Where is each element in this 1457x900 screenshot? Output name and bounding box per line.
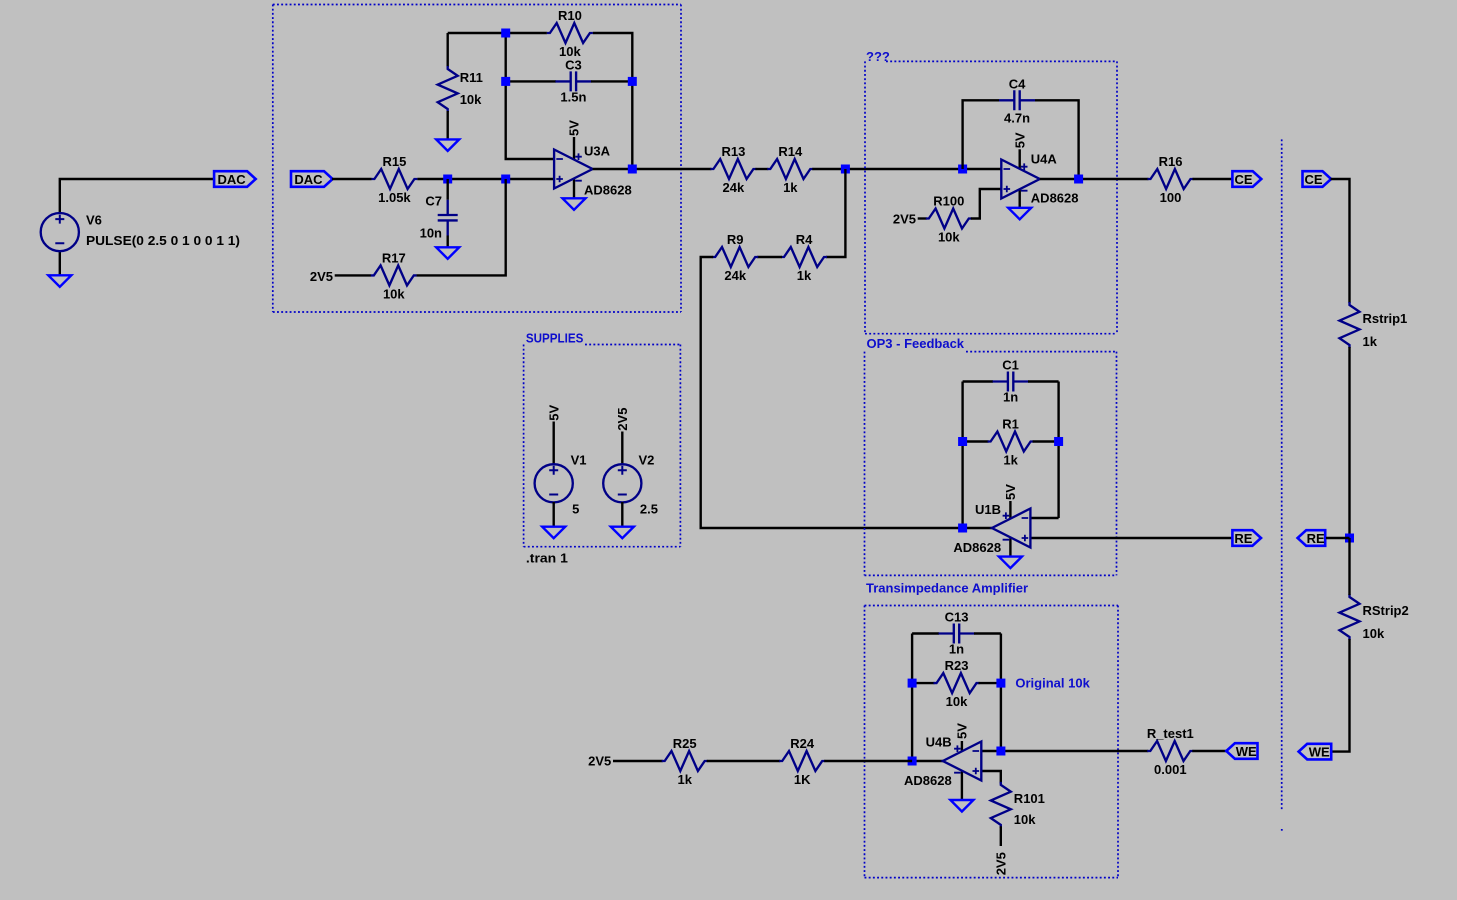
node junction U4A output [1074,175,1083,184]
svg-text:SUPPLIES: SUPPLIES [526,331,584,346]
svg-text:R10: R10 [558,8,582,23]
wire U3A output [593,168,712,170]
voltage source V6 [41,213,79,251]
wire U1B V- pin to ground [1009,538,1011,556]
wire RStrip2 to WE flag [1332,639,1350,752]
wire V6 output to DAC flag [60,179,214,213]
svg-text:10k: 10k [1014,812,1036,827]
svg-text:2V5: 2V5 [994,852,1009,875]
wire R15 to U3A + input [417,178,554,180]
wire U3A V+ pin [573,137,575,160]
svg-text:PULSE(0 2.5 0 1 0 0 1 1): PULSE(0 2.5 0 1 0 0 1 1) [86,233,240,248]
svg-text:1k: 1k [783,180,798,195]
svg-text:10n: 10n [420,226,442,241]
resistor R11 10k [438,66,483,112]
svg-text:2V5: 2V5 [615,408,630,431]
wire feedback to U3A - input [506,33,554,159]
wire R1 right [1033,440,1059,442]
wire 2V5 to R100 [918,217,927,219]
wire C13 right [974,632,1001,634]
resistor R25 1k [662,736,708,787]
svg-text:1k: 1k [677,772,692,787]
net flag DAC (source side) [214,171,256,187]
svg-text:C3: C3 [565,57,582,72]
svg-text:DAC: DAC [218,172,247,187]
resistor R13 24k [710,144,756,195]
wire node to R4 [826,169,845,257]
ground [950,800,973,812]
svg-text:C13: C13 [945,610,969,625]
wire U1B output [963,527,992,529]
wire TIA right rail [1000,634,1002,752]
U4B power pin marks [954,745,961,772]
dotted box: input stage [273,5,681,313]
op-amp U4B AD8628 [943,742,982,781]
svg-text:5V: 5V [546,404,561,420]
wire V1 top [553,422,555,465]
svg-text:R1: R1 [1002,417,1019,432]
node junction U4B output [908,757,917,766]
svg-text:WE: WE [1236,744,1257,759]
op-amp U1B AD8628 [992,509,1031,548]
dotted box: transimpedance amplifier stage [865,606,1119,878]
svg-text:R23: R23 [945,658,969,673]
svg-text:R16: R16 [1159,154,1183,169]
wire to C7 [447,179,449,200]
resistor R24 1K [779,736,825,787]
svg-text:24k: 24k [724,268,746,283]
svg-text:AD8628: AD8628 [1031,190,1079,205]
svg-text:U3A: U3A [584,143,611,158]
net flag WE (drive side) [1226,743,1257,759]
node junction C3 right [628,77,637,86]
ground [563,198,586,210]
svg-text:AD8628: AD8628 [584,183,632,198]
wire V2 top [621,432,623,465]
svg-text:R14: R14 [778,144,803,159]
node junction C3 left [501,77,510,86]
svg-text:U4A: U4A [1031,151,1058,166]
wire U4B V- pin to ground [961,771,963,800]
svg-text:Rstrip1: Rstrip1 [1363,311,1408,326]
ground [436,247,459,258]
wire to C3 [506,80,556,82]
svg-text:R101: R101 [1014,791,1045,806]
resistor R15 1.05k [371,154,417,205]
node junction R1 right [1054,437,1063,446]
capacitor C3 1.5n [555,57,591,104]
U4A power pin marks [1021,163,1028,190]
op-amp U4A AD8628 [1001,160,1040,199]
net flag RE (cell side) [1298,530,1326,546]
wire U1B + input to RE flag [1030,537,1232,539]
node junction R14/R4 [841,165,850,174]
wire R14 to U4A - input [812,168,1001,170]
dotted separator line [1281,139,1283,810]
wire R100 to U4A + input [971,189,1002,219]
wire U4B output [912,760,943,762]
svg-text:R25: R25 [673,736,697,751]
svg-text:1k: 1k [1003,453,1018,468]
wire R13 to R14 [755,168,768,170]
ground [48,275,71,287]
wire R_test1 to WE flag [1192,750,1226,752]
node junction U4B feedback [996,747,1005,756]
wire C3 to output branch [591,80,632,82]
svg-text:2.5: 2.5 [640,502,658,517]
node junction U1B output [958,524,967,533]
wire R4 to R9 [757,256,782,258]
wire 2V5 to R17 [335,274,371,276]
wire to R11 [447,33,449,67]
svg-text:2V5: 2V5 [310,269,333,284]
wire V1 to ground [553,502,555,527]
svg-text:.tran 1: .tran 1 [526,551,568,566]
resistor R1 1k [988,417,1034,468]
svg-text:100: 100 [1160,190,1182,205]
wire node to RStrip2 [1348,538,1350,595]
dotted box: OP3 feedback stage [865,352,1117,576]
svg-text:RStrip2: RStrip2 [1363,603,1409,618]
wire U3A V- pin to ground [573,179,575,198]
svg-text:5V: 5V [955,723,970,739]
U1B power pin marks [1003,512,1010,539]
svg-text:10k: 10k [383,286,405,301]
svg-text:10k: 10k [946,694,968,709]
node junction RE tap [1345,534,1354,543]
node junction R23 right [996,679,1005,688]
wire C4 left [963,100,999,169]
svg-text:R_test1: R_test1 [1147,726,1194,741]
resistor R4 1k [781,232,827,283]
svg-text:RE: RE [1234,531,1252,546]
svg-text:C7: C7 [425,193,442,208]
resistor R17 10k [371,250,417,301]
wire top feedback left [448,32,547,34]
wire RE flag to node [1326,537,1350,539]
wire U4B V+ pin [961,741,963,751]
svg-text:U4B: U4B [926,734,952,749]
wire to R_test1 [1001,750,1148,752]
capacitor C4 4.7n [999,76,1035,125]
svg-text:5V: 5V [567,120,582,136]
svg-text:1.5n: 1.5n [560,89,586,104]
svg-text:2V5: 2V5 [588,754,611,769]
svg-text:V1: V1 [571,452,587,467]
dotted box: SUPPLIES [524,345,681,547]
wire C1 right [1028,380,1059,382]
node junction R15/C7 [443,175,452,184]
net flag WE (cell side) [1299,744,1332,760]
svg-text:AD8628: AD8628 [953,540,1001,555]
wire TIA left rail [911,634,913,762]
wire C7 to ground [447,236,449,248]
svg-text:AD8628: AD8628 [904,773,952,788]
capacitor C13 1n [939,610,975,657]
resistor RStrip2 10k [1340,594,1409,641]
node junction R1 left [958,437,967,446]
svg-text:10k: 10k [460,92,482,107]
wire DAC to R15 [332,178,372,180]
wire R23 right [979,682,1001,684]
ground [542,527,565,539]
wire R17 to summing node [417,179,506,275]
wire R25 to R24 [707,760,781,762]
svg-text:V2: V2 [639,452,655,467]
dotted separator stray dot [1281,829,1283,831]
node junction R23 left [908,679,917,688]
svg-text:R13: R13 [721,144,745,159]
wire U4A V+ pin [1019,149,1021,169]
op-amp U3A AD8628 [554,150,593,189]
net flag DAC (input side) [291,171,333,187]
resistor R10 10k [547,8,593,59]
resistor Rstrip1 1k [1340,302,1408,349]
ground [999,557,1022,569]
node junction C4 left [958,165,967,174]
resistor R14 1k [767,144,813,195]
wire R11 to ground [447,111,449,139]
wire CE to Rstrip1 [1331,179,1350,303]
wire U4B - input [981,750,1001,752]
wire feedback left rail [961,382,963,529]
wire U4B + input to R101 [981,771,1001,784]
wire R23 left [912,682,934,684]
svg-text:WE: WE [1309,744,1330,759]
wire U4A output to R16 [1040,178,1149,180]
wire R24 to U4B output node [824,760,912,762]
svg-text:CE: CE [1304,172,1322,187]
svg-text:1.05k: 1.05k [378,190,411,205]
svg-text:5V: 5V [1003,484,1018,500]
svg-text:R11: R11 [460,70,483,85]
capacitor C7 10n [438,200,458,236]
resistor R23 10k [934,658,980,709]
wire Rstrip1 to RE node [1348,347,1350,538]
svg-text:R24: R24 [790,736,815,751]
wire C4 right to output [1035,100,1079,179]
wire V2 to ground [621,502,623,527]
resistor R101 10k [991,782,1045,828]
svg-text:10k: 10k [1363,626,1385,641]
resistor R_test1 0.001 [1147,726,1194,777]
svg-text:???: ??? [866,49,890,64]
ground [611,527,634,539]
resistor R9 24k [712,232,758,283]
wire R101 to 2V5 [1000,826,1002,846]
ground [436,139,459,151]
svg-text:U1B: U1B [975,502,1001,517]
ground [1008,208,1031,220]
dotted box: ??? stage [865,61,1117,333]
svg-text:Original 10k: Original 10k [1015,676,1090,691]
svg-text:OP3 - Feedback: OP3 - Feedback [867,336,965,351]
svg-text:RE: RE [1307,531,1325,546]
svg-text:CE: CE [1235,172,1253,187]
svg-text:C4: C4 [1009,76,1026,91]
wire U1B V+ pin [1009,501,1011,519]
capacitor C1 1n [993,358,1029,405]
wire R1 left [963,440,989,442]
net flag CE (cell side) [1303,171,1332,187]
svg-text:R4: R4 [796,232,813,247]
svg-text:V6: V6 [86,213,102,228]
svg-text:1n: 1n [1003,390,1018,405]
node junction main/R17 [501,175,510,184]
wire C1 left [963,380,993,382]
svg-text:Transimpedance Amplifier: Transimpedance Amplifier [866,581,1028,596]
svg-text:1k: 1k [1363,334,1378,349]
wire R10 to output [593,33,632,169]
svg-text:5: 5 [572,502,579,517]
resistor R16 100 [1148,154,1194,205]
wire V6 to ground [59,251,61,275]
node junction R10/R11 [501,29,510,38]
svg-text:10k: 10k [938,230,960,245]
wire feedback right rail [1057,382,1059,519]
wire U1B - input [1030,517,1058,519]
svg-text:4.7n: 4.7n [1004,110,1030,125]
wire R16 to CE flag [1193,178,1233,180]
svg-text:24k: 24k [723,180,745,195]
node junction U3A output [628,165,637,174]
net flag RE (sense side) [1232,530,1261,546]
svg-text:5V: 5V [1012,132,1027,148]
U3A power pin marks [575,153,582,180]
svg-text:0.001: 0.001 [1154,762,1187,777]
wire 2V5 to R25 [613,760,663,762]
svg-text:R17: R17 [382,250,406,265]
svg-text:2V5: 2V5 [893,212,916,227]
svg-text:R15: R15 [382,154,406,169]
net flag CE (drive side) [1232,171,1261,187]
voltage source V1 5 [535,464,573,502]
svg-text:DAC: DAC [294,172,323,187]
resistor R100 10k [926,194,972,245]
svg-text:C1: C1 [1002,358,1019,373]
svg-text:R100: R100 [933,194,964,209]
wire U4A V- pin to ground [1019,189,1021,207]
wire C13 left [912,632,939,634]
svg-text:1n: 1n [949,642,964,657]
svg-text:R9: R9 [727,232,744,247]
svg-text:1K: 1K [794,772,811,787]
svg-text:1k: 1k [797,268,812,283]
voltage source V2 2.5 [603,464,641,502]
wire R9 to U1B output node [701,257,963,528]
